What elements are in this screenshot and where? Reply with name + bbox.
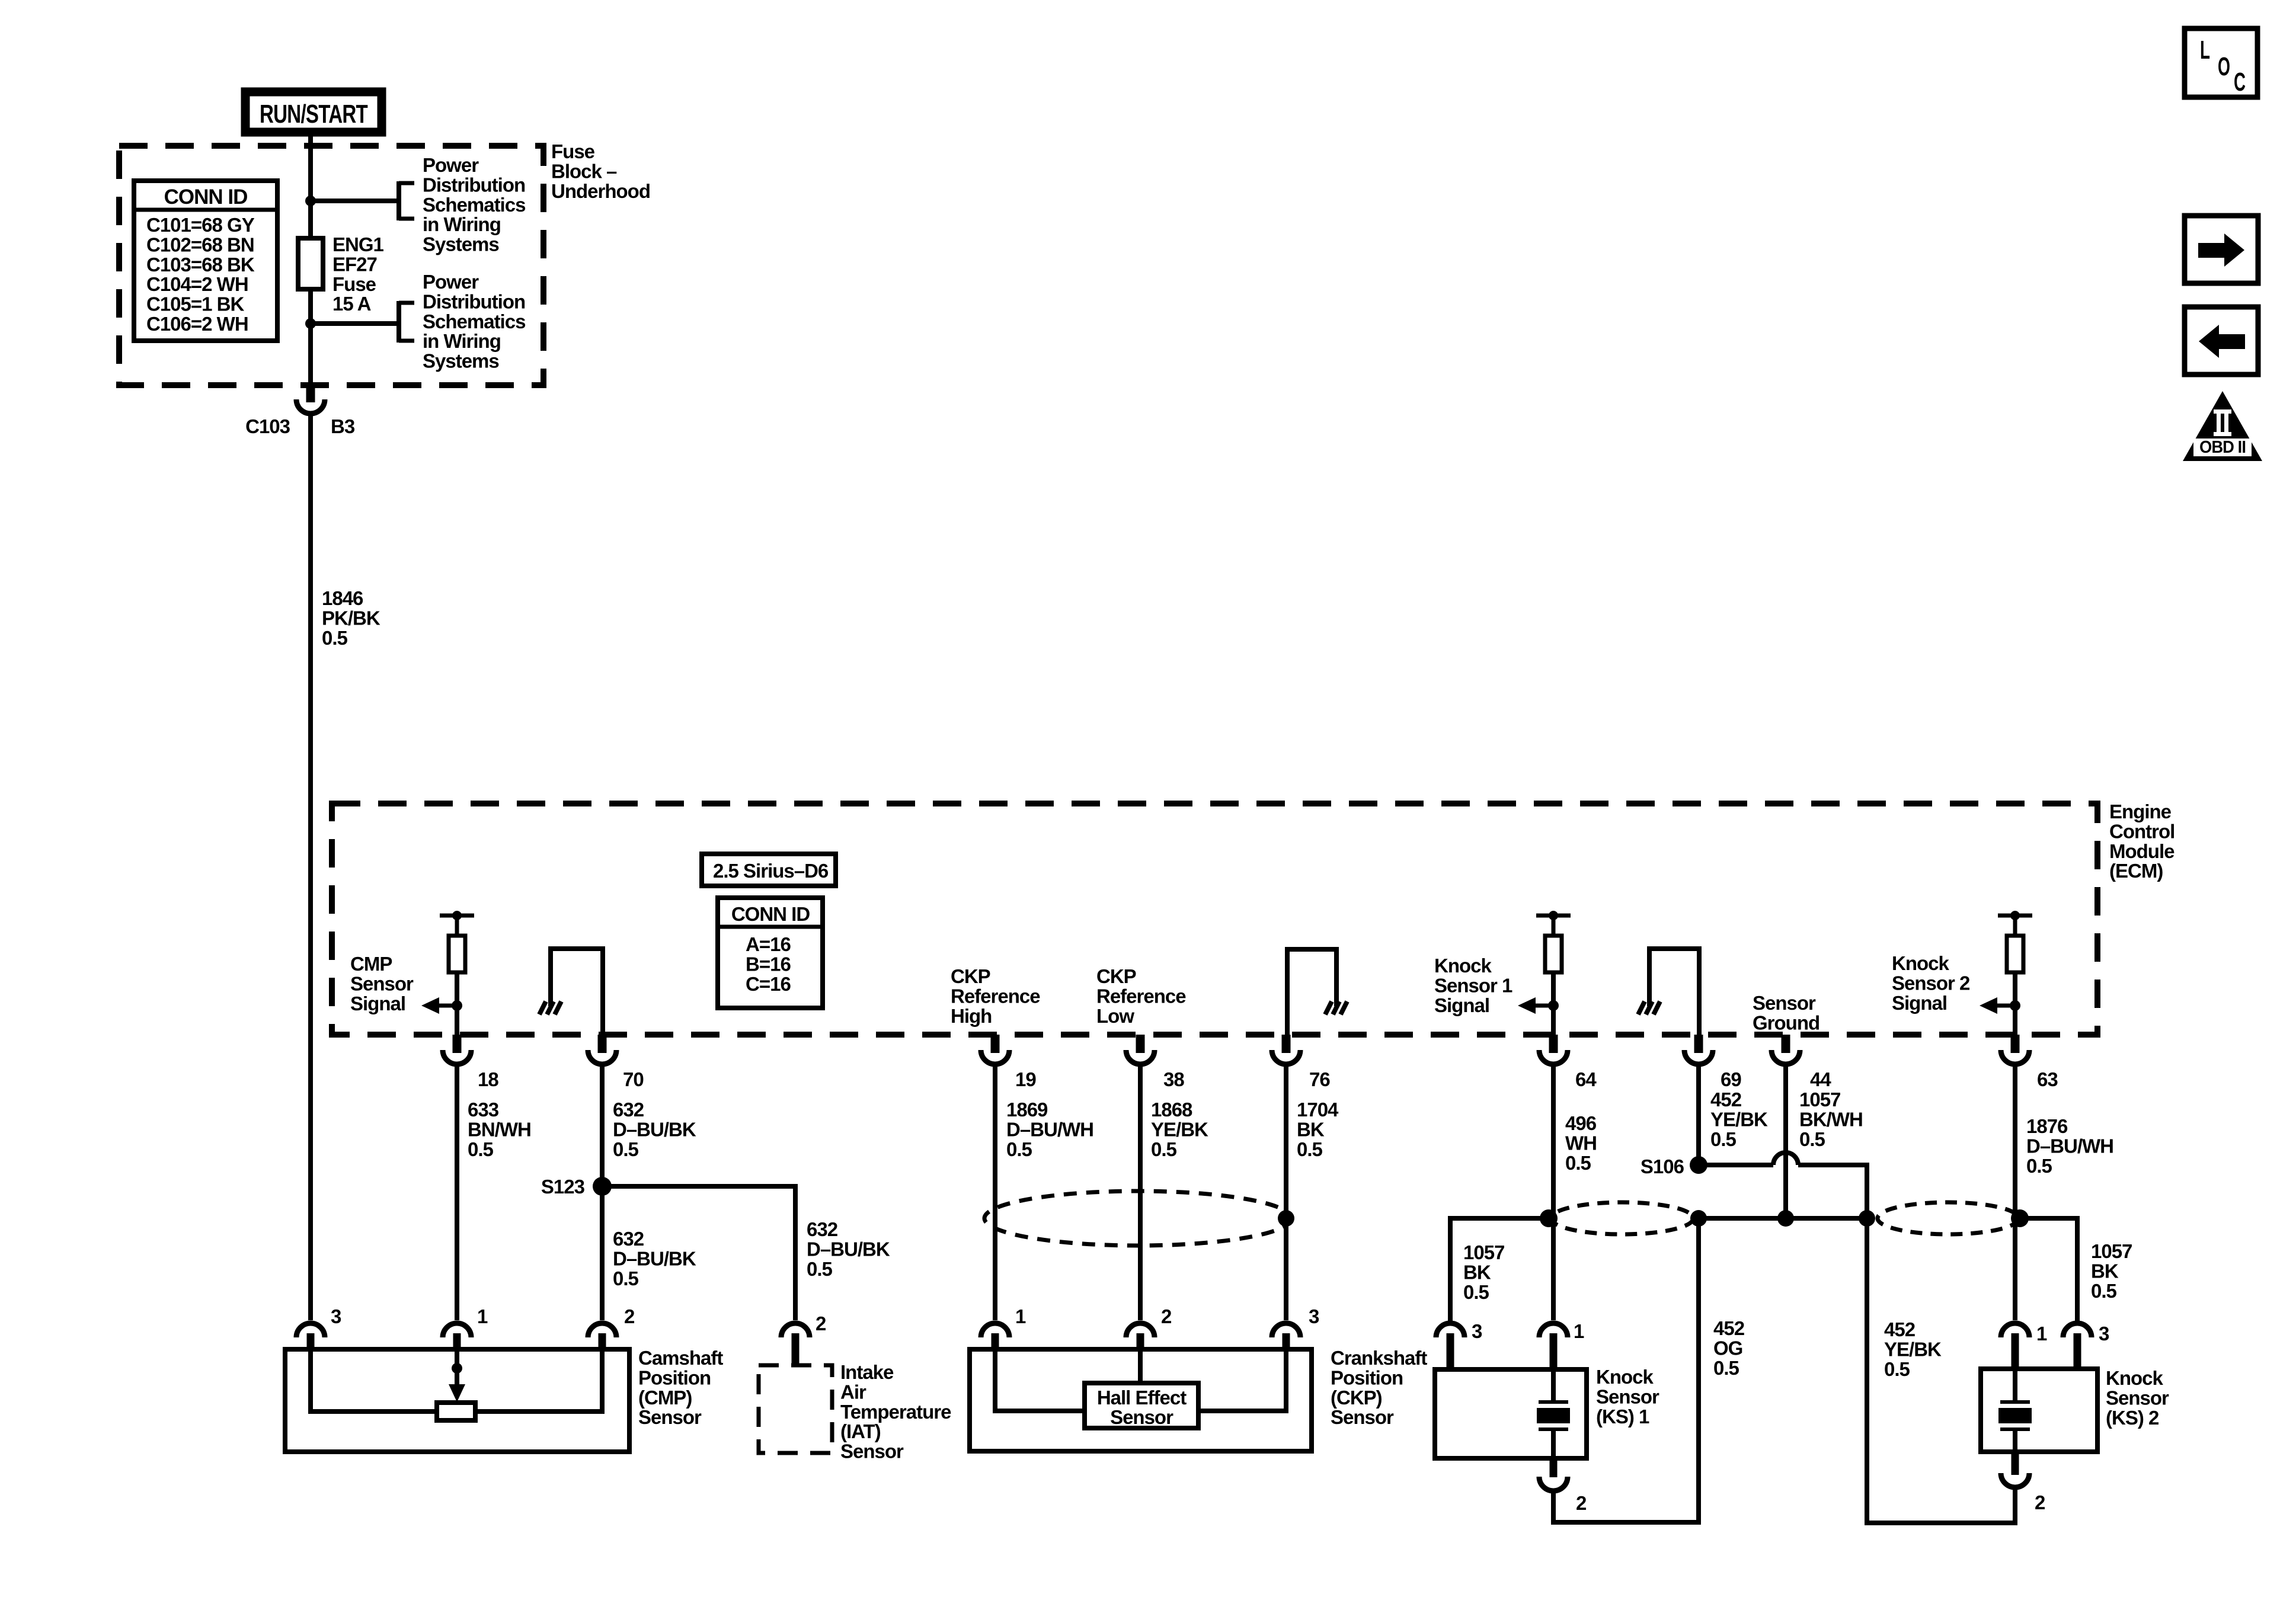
- svg-text:Air: Air: [840, 1381, 866, 1403]
- resistor (Knock Sensor 1 signal) in ECM: [1518, 911, 1571, 1035]
- svg-text:Schematics: Schematics: [423, 194, 525, 216]
- wire 632 D-BU/BK 0.5 (S123 to CMP pin 2): [600, 1186, 605, 1320]
- svg-text:Fuse: Fuse: [551, 140, 595, 162]
- wire from fuse down: [308, 289, 313, 386]
- label Engine Control Module (ECM): [2109, 801, 2175, 882]
- svg-text:(IAT): (IAT): [840, 1420, 881, 1442]
- CKP internal wiring: [995, 1349, 1286, 1411]
- svg-text:CONN ID: CONN ID: [731, 903, 810, 925]
- svg-text:Sensor: Sensor: [840, 1441, 904, 1462]
- svg-text:Crankshaft: Crankshaft: [1331, 1347, 1427, 1369]
- svg-text:Systems: Systems: [423, 233, 499, 255]
- svg-text:Sensor 1: Sensor 1: [1434, 974, 1512, 996]
- label 1869 D-BU/WH 0.5: [1006, 1099, 1093, 1160]
- svg-text:Position: Position: [638, 1366, 711, 1388]
- label 1868 YE/BK 0.5: [1151, 1099, 1208, 1160]
- wire 1868 YE/BK 0.5 (pin 38 to CKP pin 2): [1138, 1066, 1143, 1320]
- label 452 YE/BK 0.5 (pin 69): [1710, 1089, 1768, 1150]
- svg-text:0.5: 0.5: [1151, 1138, 1177, 1160]
- svg-text:YE/BK: YE/BK: [1884, 1338, 1942, 1360]
- wire 1057 BK 0.5 branch (to KS1 pin 3): [1450, 1218, 1553, 1321]
- label box 2.5 Sirius-D6: [702, 854, 836, 886]
- svg-text:Schematics: Schematics: [423, 311, 525, 332]
- label Intake Air Temperature (IAT) Sensor: [840, 1361, 951, 1462]
- ground symbol in ECM (CKP circuit, pin 76): [1287, 949, 1347, 1035]
- wire 1057 BK 0.5 branch (to KS2 pin 3): [2015, 1218, 2077, 1321]
- KS1 pin 2 connector: [1539, 1458, 1587, 1522]
- svg-text:BN/WH: BN/WH: [468, 1118, 531, 1140]
- ECM connector pin 64: [1539, 1035, 1597, 1090]
- svg-text:L: L: [2200, 36, 2210, 65]
- fuse ENG1 EF27 15 A: [298, 238, 323, 289]
- KS1 pin 3 connector: [1436, 1320, 1482, 1369]
- svg-text:Sensor: Sensor: [350, 972, 414, 994]
- svg-text:Position: Position: [1331, 1366, 1403, 1388]
- label 452 OG 0.5: [1713, 1317, 1745, 1379]
- wire 1057 BK/WH 0.5 (pin 44 to sensor-ground bus): [1783, 1066, 1788, 1218]
- svg-text:63: 63: [2037, 1068, 2058, 1090]
- svg-text:C104=2 WH: C104=2 WH: [146, 273, 248, 295]
- svg-text:C103: C103: [245, 415, 290, 437]
- splice S106: [1641, 1156, 1707, 1177]
- svg-text:C103=68 BK: C103=68 BK: [146, 254, 255, 276]
- svg-text:C: C: [2234, 68, 2246, 97]
- svg-text:High: High: [951, 1005, 992, 1027]
- branch wire to power distribution lower: [311, 301, 414, 343]
- wire 632 D-BU/BK 0.5 (pin 70 to S123): [600, 1066, 605, 1186]
- svg-text:BK: BK: [2091, 1260, 2119, 1282]
- CONN ID table (fuse block): [134, 181, 277, 341]
- svg-text:Distribution: Distribution: [423, 174, 525, 196]
- label Crankshaft Position (CKP) Sensor: [1331, 1347, 1427, 1428]
- ECM connector pin 70: [588, 1035, 644, 1090]
- svg-text:0.5: 0.5: [1006, 1138, 1032, 1160]
- svg-text:452: 452: [1710, 1089, 1742, 1110]
- label 1704 BK 0.5: [1297, 1099, 1339, 1160]
- label CKP Reference Low: [1096, 965, 1186, 1027]
- label 1057 BK 0.5 (KS1): [1463, 1241, 1504, 1303]
- svg-text:(CKP): (CKP): [1331, 1387, 1382, 1409]
- connector C103 pin B3 (in-line): [245, 385, 355, 437]
- svg-text:3: 3: [2099, 1323, 2109, 1345]
- svg-text:0.5: 0.5: [1297, 1138, 1323, 1160]
- svg-text:0.5: 0.5: [468, 1138, 494, 1160]
- svg-text:3: 3: [1309, 1305, 1319, 1327]
- svg-text:(CMP): (CMP): [638, 1387, 692, 1409]
- Camshaft Position (CMP) Sensor box: [285, 1349, 629, 1452]
- svg-text:EF27: EF27: [332, 253, 377, 275]
- label 496 WH 0.5: [1565, 1112, 1597, 1174]
- svg-text:BK: BK: [1297, 1118, 1325, 1140]
- label Fuse Block - Underhood: [551, 140, 650, 202]
- CMP sensor pin 3 connector: [296, 1305, 341, 1350]
- ECM connector pin 63: [2001, 1035, 2058, 1090]
- svg-text:1868: 1868: [1151, 1099, 1192, 1121]
- switch label RUN/START (ignition feed): [245, 92, 382, 132]
- svg-text:D–BU/WH: D–BU/WH: [1006, 1118, 1093, 1140]
- forward arrow box: [2185, 216, 2258, 283]
- svg-text:Reference: Reference: [1096, 985, 1186, 1007]
- Crankshaft Position (CKP) Sensor box: [970, 1349, 1312, 1451]
- node S106 drop: [1690, 1210, 1707, 1227]
- svg-text:BK: BK: [1463, 1261, 1491, 1283]
- svg-text:CKP: CKP: [951, 965, 990, 987]
- svg-text:1876: 1876: [2026, 1115, 2068, 1137]
- wire 452 YE/BK 0.5 (pin 69 to S106): [1696, 1066, 1701, 1165]
- CONN ID table (ECM): [718, 898, 823, 1008]
- svg-text:Intake: Intake: [840, 1361, 894, 1383]
- svg-text:Temperature: Temperature: [840, 1401, 951, 1423]
- label 1057 BK 0.5 (KS2): [2091, 1240, 2132, 1302]
- svg-text:YE/BK: YE/BK: [1151, 1118, 1208, 1140]
- svg-text:Sensor: Sensor: [638, 1406, 702, 1428]
- svg-text:Signal: Signal: [1434, 994, 1489, 1016]
- svg-text:Systems: Systems: [423, 350, 499, 372]
- svg-text:Signal: Signal: [350, 993, 405, 1014]
- svg-text:in Wiring: in Wiring: [423, 213, 501, 235]
- svg-text:Power: Power: [423, 271, 479, 293]
- LOC reference box: [2185, 28, 2257, 97]
- svg-text:Hall Effect: Hall Effect: [1097, 1387, 1187, 1409]
- label CMP Sensor Signal: [350, 953, 414, 1014]
- svg-text:1057: 1057: [1799, 1089, 1840, 1110]
- svg-text:38: 38: [1163, 1068, 1184, 1090]
- svg-text:Sensor: Sensor: [2106, 1387, 2169, 1409]
- svg-text:C102=68 BN: C102=68 BN: [146, 233, 254, 255]
- svg-text:15 A: 15 A: [332, 293, 371, 315]
- svg-text:S123: S123: [541, 1176, 585, 1198]
- svg-text:2.5 Sirius–D6: 2.5 Sirius–D6: [713, 860, 829, 882]
- svg-text:Fuse: Fuse: [332, 273, 376, 295]
- wire 1869 D-BU/WH 0.5 (pin 19 to CKP pin 1): [993, 1066, 997, 1320]
- label 1846 PK/BK 0.5: [322, 587, 380, 649]
- svg-text:CMP: CMP: [350, 953, 392, 975]
- svg-text:0.5: 0.5: [2026, 1155, 2052, 1177]
- svg-text:2: 2: [2035, 1491, 2045, 1513]
- svg-text:PK/BK: PK/BK: [322, 607, 380, 629]
- svg-text:2: 2: [816, 1313, 826, 1334]
- node pin44 join: [1777, 1210, 1794, 1227]
- svg-text:OG: OG: [1713, 1337, 1742, 1359]
- svg-text:1: 1: [1574, 1320, 1584, 1342]
- svg-text:633: 633: [468, 1099, 499, 1121]
- label Power Distribution Schematics in Wiring Systems (upper): [423, 154, 525, 255]
- CKP sensor pin 3 connector: [1272, 1305, 1319, 1350]
- svg-text:632: 632: [613, 1099, 644, 1121]
- svg-text:CONN ID: CONN ID: [164, 185, 248, 209]
- Knock Sensor (KS) 2 box: [1981, 1369, 2097, 1452]
- svg-text:19: 19: [1015, 1068, 1036, 1090]
- svg-text:44: 44: [1810, 1068, 1831, 1090]
- svg-text:Knock: Knock: [2106, 1367, 2164, 1389]
- label Sensor Ground: [1753, 992, 1819, 1033]
- label Knock Sensor (KS) 1: [1596, 1366, 1659, 1427]
- ECM connector pin 18: [443, 1035, 498, 1090]
- back arrow box: [2185, 307, 2258, 375]
- svg-text:1869: 1869: [1006, 1099, 1048, 1121]
- svg-text:Sensor 2: Sensor 2: [1892, 972, 1970, 994]
- svg-text:Reference: Reference: [951, 985, 1040, 1007]
- wire 496 WH 0.5 (pin 64 to KS1 pin 1): [1551, 1066, 1556, 1320]
- ECM connector pin 38: [1126, 1035, 1184, 1090]
- svg-text:Sensor: Sensor: [1110, 1406, 1173, 1428]
- svg-text:(ECM): (ECM): [2109, 860, 2163, 882]
- svg-text:YE/BK: YE/BK: [1710, 1108, 1768, 1130]
- svg-text:Underhood: Underhood: [551, 180, 650, 202]
- svg-text:632: 632: [807, 1218, 838, 1240]
- sensor ground bus: [1699, 1216, 1867, 1221]
- label ENG1 EF27 Fuse 15 A: [332, 233, 384, 315]
- label 633 BN/WH 0.5: [468, 1099, 531, 1160]
- svg-text:D–BU/WH: D–BU/WH: [2026, 1135, 2113, 1157]
- svg-text:0.5: 0.5: [322, 627, 348, 649]
- KS2 pin 2 connector: [2001, 1452, 2045, 1523]
- svg-text:1057: 1057: [2091, 1240, 2132, 1262]
- svg-text:Power: Power: [423, 154, 479, 176]
- svg-text:0.5: 0.5: [1565, 1152, 1591, 1174]
- label Knock Sensor (KS) 2: [2106, 1367, 2169, 1429]
- svg-text:Control: Control: [2109, 820, 2175, 842]
- splice S123: [541, 1176, 612, 1198]
- label Camshaft Position (CMP) Sensor: [638, 1347, 723, 1428]
- svg-text:2: 2: [1161, 1305, 1172, 1327]
- svg-text:CKP: CKP: [1096, 965, 1136, 987]
- svg-text:C=16: C=16: [746, 973, 791, 995]
- wire 452 OG 0.5 (bus down to KS1 pin 2): [1553, 1218, 1699, 1522]
- svg-text:C105=1 BK: C105=1 BK: [146, 293, 245, 315]
- svg-text:0.5: 0.5: [2091, 1280, 2117, 1302]
- ECM connector pin 44: [1771, 1035, 1831, 1090]
- CMP sensor pin 1 connector: [443, 1305, 488, 1350]
- label 632 D-BU/BK 0.5 (upper): [613, 1099, 696, 1160]
- Engine Control Module (ECM) dashed outline: [332, 804, 2097, 1035]
- ground symbol in ECM (knock circuit, pin 69): [1638, 949, 1699, 1035]
- junction node lower (to power distribution): [305, 318, 316, 329]
- svg-text:Sensor: Sensor: [1753, 992, 1816, 1014]
- label CKP Reference High: [951, 965, 1040, 1027]
- svg-text:1704: 1704: [1297, 1099, 1339, 1121]
- svg-text:0.5: 0.5: [613, 1138, 639, 1160]
- svg-text:Knock: Knock: [1596, 1366, 1654, 1388]
- svg-text:BK/WH: BK/WH: [1799, 1108, 1863, 1130]
- CMP internal wiring: [311, 1349, 602, 1420]
- label Knock Sensor 2 Signal: [1892, 952, 1970, 1014]
- svg-text:B3: B3: [331, 415, 355, 437]
- node wire63/branch: [2011, 1209, 2029, 1227]
- svg-text:2: 2: [1576, 1492, 1587, 1514]
- svg-text:(KS) 1: (KS) 1: [1596, 1406, 1649, 1427]
- svg-text:(KS) 2: (KS) 2: [2106, 1407, 2159, 1429]
- svg-text:C101=68 GY: C101=68 GY: [146, 214, 255, 236]
- svg-text:Sensor: Sensor: [1331, 1406, 1394, 1428]
- svg-text:76: 76: [1309, 1068, 1330, 1090]
- svg-text:0.5: 0.5: [613, 1267, 639, 1289]
- svg-text:Knock: Knock: [1434, 955, 1492, 977]
- shield ellipse (KS1): [1551, 1202, 1693, 1234]
- svg-text:70: 70: [623, 1068, 644, 1090]
- wire 1876 D-BU/WH 0.5 (pin 63 to KS2 pin 1): [2013, 1066, 2017, 1320]
- svg-text:0.5: 0.5: [1884, 1358, 1910, 1380]
- svg-text:2: 2: [624, 1305, 635, 1327]
- svg-text:Sensor: Sensor: [1596, 1385, 1659, 1407]
- svg-text:1: 1: [1015, 1305, 1026, 1327]
- svg-text:Module: Module: [2109, 840, 2175, 862]
- svg-text:D–BU/BK: D–BU/BK: [613, 1118, 696, 1140]
- ground symbol in ECM (left, pin 70 circuit): [539, 949, 603, 1035]
- wire 452 YE/BK 0.5 (bus down to KS2 pin 2): [1867, 1218, 2015, 1523]
- svg-text:3: 3: [1472, 1320, 1482, 1342]
- IAT sensor pin 2 connector: [781, 1313, 826, 1365]
- svg-text:A=16: A=16: [746, 933, 791, 955]
- wire from RUN/START down to fuse: [308, 132, 313, 238]
- wire 633 BN/WH 0.5 (pin 18 to CMP pin 1): [455, 1066, 459, 1320]
- shield ellipse (CKP twisted pair): [984, 1191, 1291, 1246]
- wire 1846 PK/BK 0.5 (long vertical to CMP pin 3): [308, 415, 313, 1320]
- svg-text:ENG1: ENG1: [332, 233, 384, 255]
- svg-text:1057: 1057: [1463, 1241, 1504, 1263]
- svg-text:0.5: 0.5: [1463, 1281, 1489, 1303]
- label Power Distribution Schematics in Wiring Systems (lower): [423, 271, 525, 372]
- node right branch join: [1859, 1210, 1875, 1227]
- wire S106 to right branch with hop over pin44 wire: [1699, 1153, 1867, 1218]
- KS1 pin 1 connector: [1539, 1320, 1584, 1369]
- svg-text:0.5: 0.5: [1799, 1128, 1825, 1150]
- svg-text:Ground: Ground: [1753, 1012, 1819, 1033]
- branch wire to power distribution upper: [311, 181, 414, 220]
- svg-text:O: O: [2218, 52, 2230, 81]
- resistor (Knock Sensor 2 signal) in ECM: [1980, 911, 2032, 1035]
- svg-text:Knock: Knock: [1892, 952, 1950, 974]
- ECM connector pin 69: [1684, 1035, 1741, 1090]
- svg-text:3: 3: [331, 1305, 341, 1327]
- svg-text:C106=2 WH: C106=2 WH: [146, 313, 248, 335]
- KS1 piezo element: [1537, 0, 1570, 1458]
- svg-text:Low: Low: [1096, 1005, 1134, 1027]
- svg-text:452: 452: [1884, 1318, 1916, 1340]
- svg-text:18: 18: [478, 1068, 498, 1090]
- svg-text:Engine: Engine: [2109, 801, 2172, 822]
- label 1876 D-BU/WH 0.5: [2026, 1115, 2113, 1177]
- svg-text:0.5: 0.5: [1713, 1357, 1739, 1379]
- junction node upper (to power distribution): [305, 196, 316, 206]
- ECM connector pin 76: [1272, 1035, 1330, 1090]
- svg-text:1: 1: [477, 1305, 488, 1327]
- label 452 YE/BK 0.5 (KS2): [1884, 1318, 1942, 1380]
- node wire64/branch: [1540, 1209, 1558, 1227]
- svg-text:WH: WH: [1565, 1132, 1597, 1154]
- svg-text:0.5: 0.5: [1710, 1128, 1737, 1150]
- svg-text:Block –: Block –: [551, 160, 617, 182]
- KS2 pin 3 connector: [2063, 1323, 2109, 1369]
- svg-text:D–BU/BK: D–BU/BK: [807, 1238, 890, 1260]
- shield drain node on wire 76: [1278, 1210, 1294, 1227]
- ECM connector pin 19: [981, 1035, 1036, 1090]
- Hall Effect Sensor box: [1085, 1383, 1198, 1428]
- label 632 D-BU/BK 0.5 (lower left): [613, 1228, 696, 1289]
- svg-text:D–BU/BK: D–BU/BK: [613, 1247, 696, 1269]
- svg-text:1: 1: [2036, 1323, 2047, 1345]
- svg-text:Distribution: Distribution: [423, 290, 525, 312]
- resistor (CMP sensor signal pull-up) in ECM: [421, 911, 474, 1035]
- CMP sensor pin 2 connector: [588, 1305, 635, 1350]
- wire 1704 BK 0.5 (pin 76 to CKP pin 3): [1284, 1066, 1288, 1320]
- svg-text:452: 452: [1713, 1317, 1745, 1339]
- label 632 D-BU/BK 0.5 (IAT branch): [807, 1218, 890, 1280]
- Knock Sensor (KS) 1 box: [1435, 1369, 1587, 1458]
- label Knock Sensor 1 Signal: [1434, 955, 1512, 1016]
- KS2 pin 1 connector: [2001, 1323, 2047, 1369]
- svg-text:in Wiring: in Wiring: [423, 330, 501, 352]
- label 1057 BK/WH 0.5: [1799, 1089, 1863, 1150]
- svg-text:496: 496: [1565, 1112, 1597, 1134]
- svg-text:632: 632: [613, 1228, 644, 1250]
- wire 632 D-BU/BK 0.5 (S123 to IAT pin 2): [602, 1186, 795, 1320]
- svg-text:OBD II: OBD II: [2199, 438, 2246, 457]
- shield ellipse (KS2): [1878, 1202, 2019, 1234]
- KS2 piezo element: [1998, 0, 2032, 1452]
- svg-text:Signal: Signal: [1892, 992, 1947, 1014]
- svg-text:RUN/START: RUN/START: [260, 100, 368, 129]
- svg-text:69: 69: [1721, 1068, 1741, 1090]
- OBD II triangle symbol: [2183, 391, 2262, 461]
- svg-text:B=16: B=16: [746, 953, 791, 975]
- Intake Air Temperature (IAT) Sensor dashed box: [759, 1365, 832, 1453]
- fuse block dashed outline (Fuse Block - Underhood): [119, 146, 543, 385]
- svg-text:0.5: 0.5: [807, 1258, 833, 1280]
- CKP sensor pin 1 connector: [981, 1305, 1026, 1350]
- svg-text:Camshaft: Camshaft: [638, 1347, 723, 1369]
- CKP sensor pin 2 connector: [1126, 1305, 1172, 1350]
- svg-text:S106: S106: [1641, 1156, 1684, 1177]
- svg-text:64: 64: [1575, 1068, 1597, 1090]
- svg-text:1846: 1846: [322, 587, 363, 609]
